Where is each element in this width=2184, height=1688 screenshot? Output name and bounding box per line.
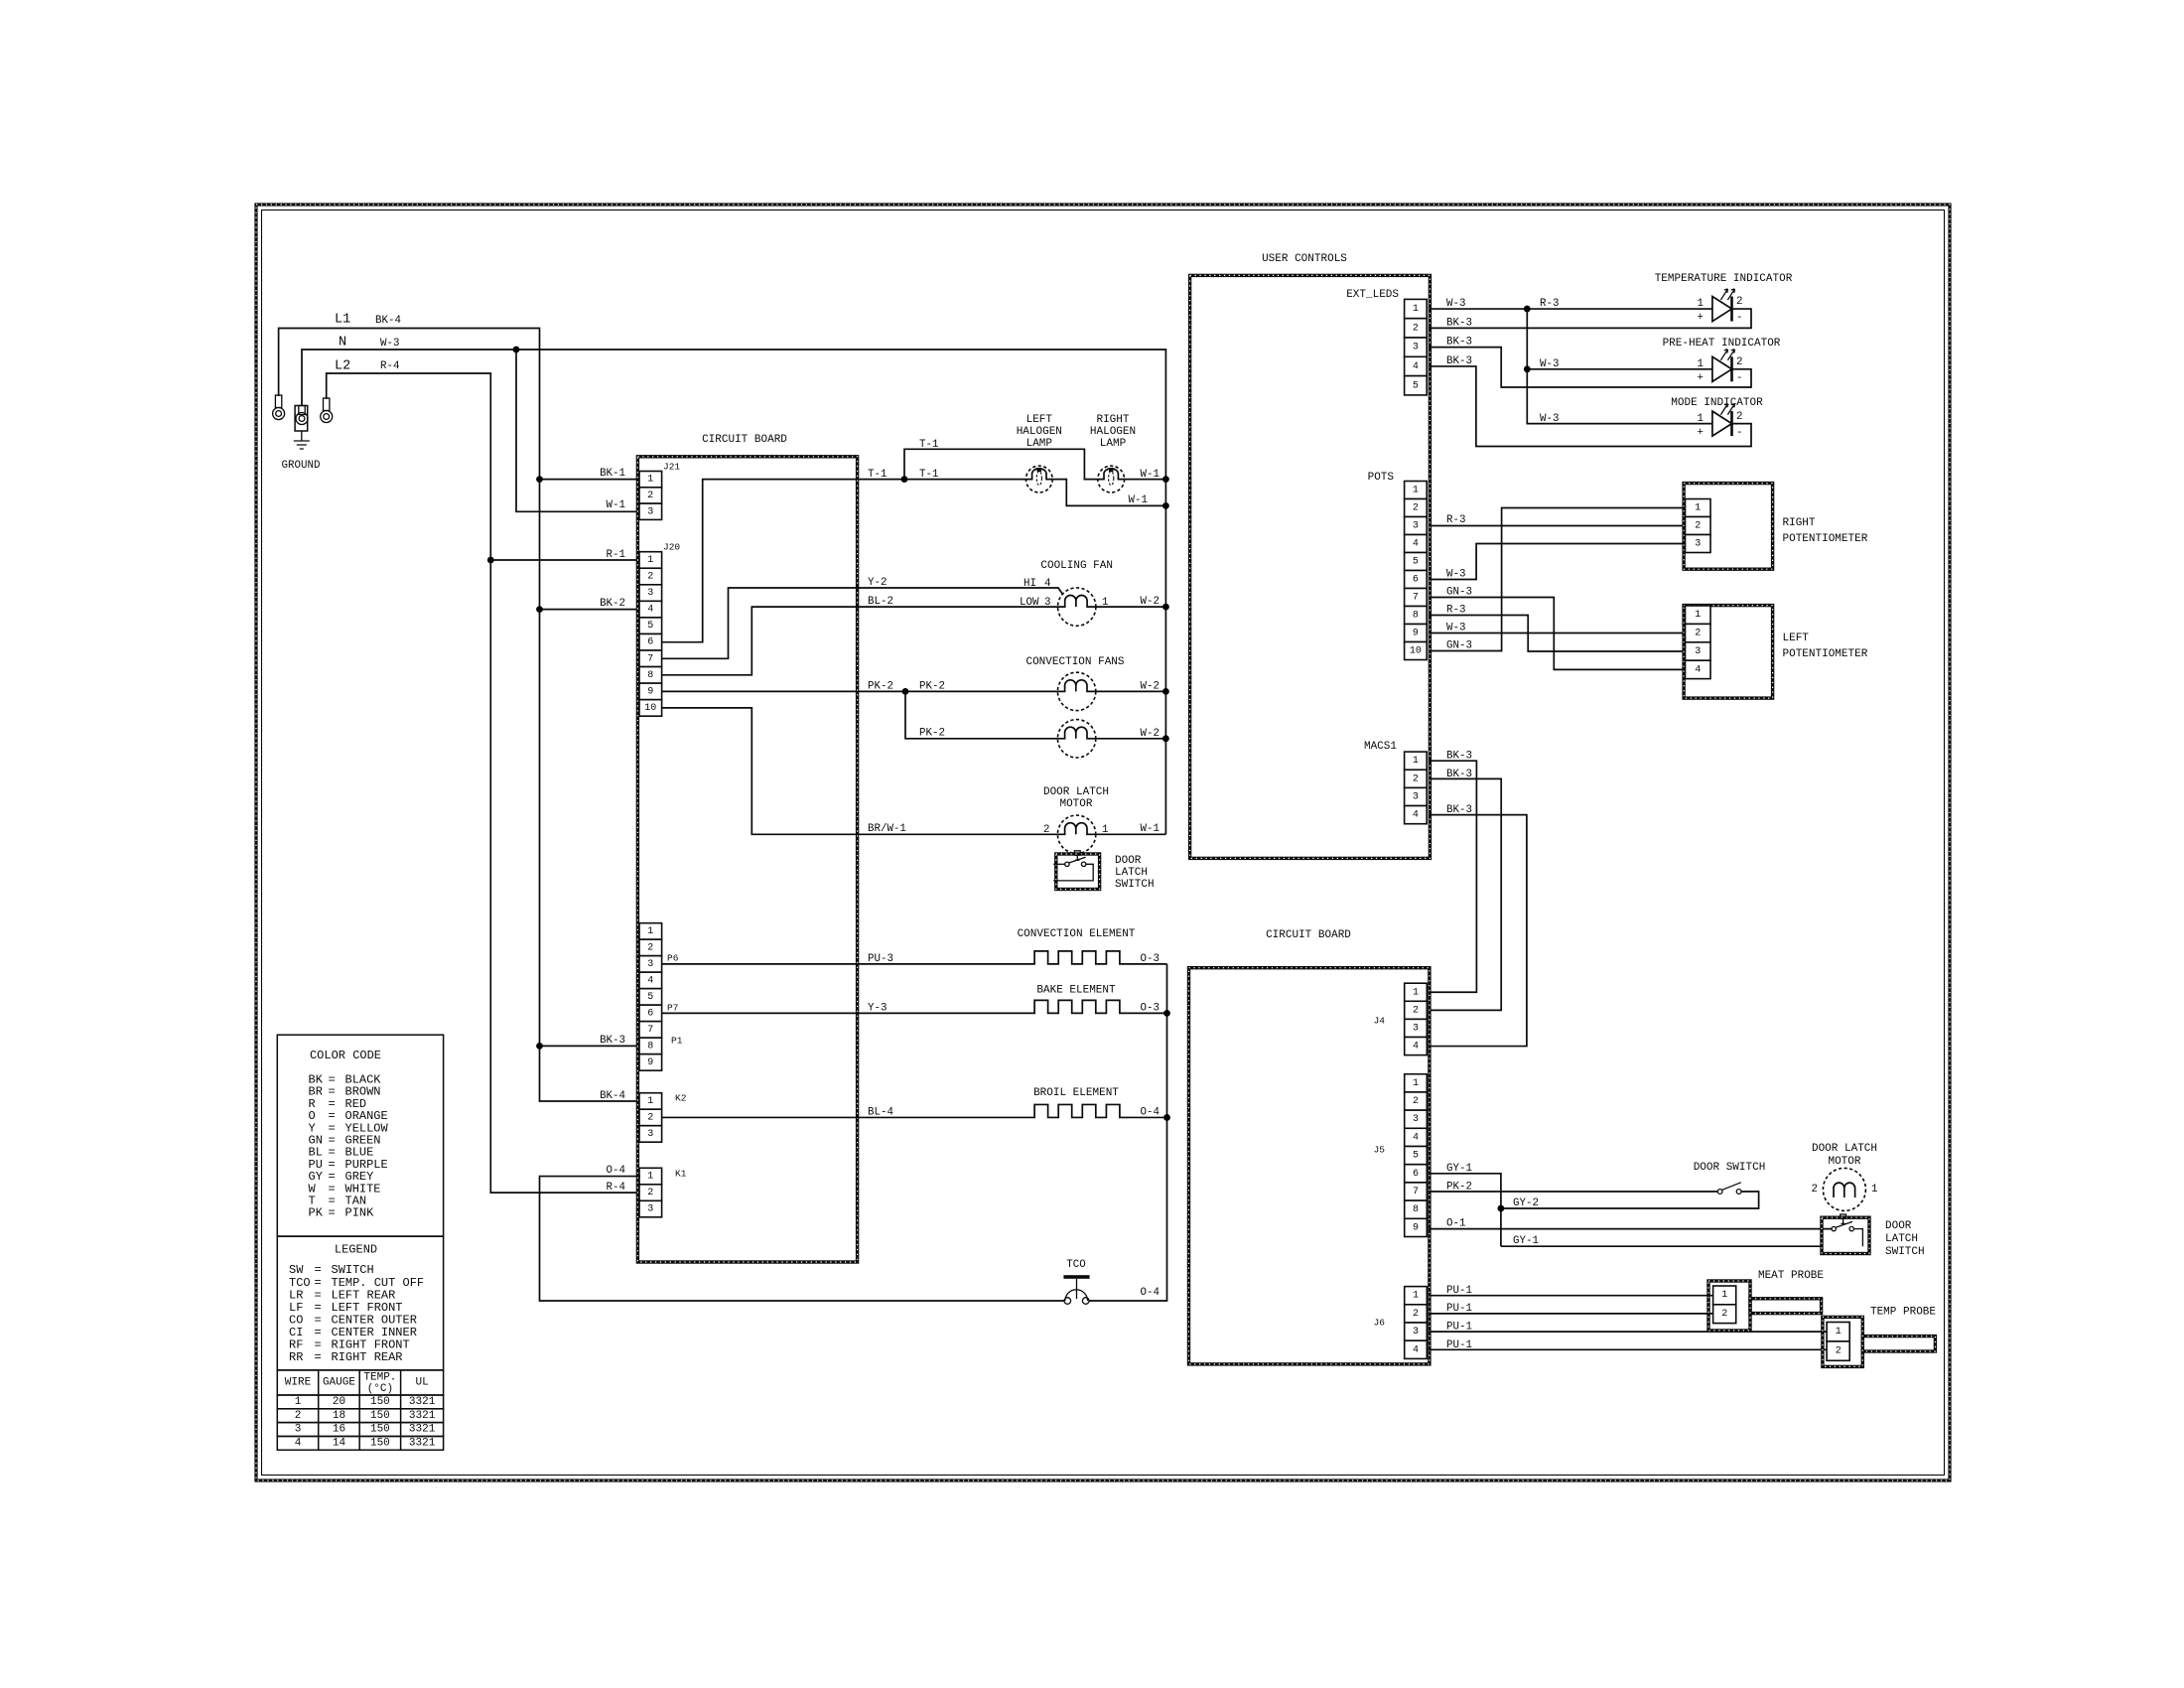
svg-text:3: 3 — [295, 1424, 302, 1436]
svg-text:PK-2: PK-2 — [868, 681, 893, 693]
svg-text:K2: K2 — [675, 1093, 687, 1104]
svg-text:1: 1 — [1413, 304, 1419, 315]
svg-text:O-4: O-4 — [1141, 1287, 1160, 1299]
svg-text:BROIL ELEMENT: BROIL ELEMENT — [1033, 1087, 1119, 1099]
circuit board 1 — [637, 457, 857, 1262]
svg-text:2: 2 — [647, 1188, 653, 1198]
svg-text:HI: HI — [1024, 578, 1036, 590]
svg-text:P6: P6 — [667, 953, 679, 964]
svg-text:O-1: O-1 — [1446, 1218, 1465, 1230]
svg-text:6: 6 — [1413, 1169, 1419, 1180]
svg-text:2: 2 — [1695, 629, 1701, 639]
svg-text:1: 1 — [1102, 824, 1108, 836]
wire L1 BK-4 from terminal to K2 pin 1 — [279, 329, 640, 1102]
svg-text:3321: 3321 — [409, 1424, 436, 1436]
svg-text:1: 1 — [1836, 1327, 1842, 1337]
svg-text:3: 3 — [1044, 597, 1050, 609]
svg-text:P7: P7 — [667, 1003, 678, 1014]
svg-text:PINK: PINK — [345, 1206, 375, 1220]
svg-text:7: 7 — [1413, 1187, 1419, 1197]
wire BK-3 MACS1 pin 2 to J4 pin 2 — [1429, 778, 1501, 1010]
svg-text:1: 1 — [1721, 1290, 1727, 1301]
svg-text:3: 3 — [1695, 539, 1701, 550]
svg-text:W-3: W-3 — [1540, 413, 1559, 425]
svg-text:TEMP PROBE: TEMP PROBE — [1870, 1307, 1936, 1319]
wire GY-1 J5 pin 6 — [1429, 1174, 1501, 1246]
svg-text:7: 7 — [647, 1025, 653, 1036]
svg-text:1: 1 — [1698, 413, 1704, 425]
svg-text:6: 6 — [1413, 575, 1419, 586]
wire T-1 upper branch to right halogen lamp — [904, 449, 1098, 479]
svg-text:10: 10 — [644, 703, 656, 714]
svg-text:4: 4 — [1695, 664, 1701, 675]
svg-text:PU-1: PU-1 — [1446, 1322, 1472, 1334]
svg-text:4: 4 — [1413, 1042, 1419, 1053]
wire R-1 branch to J20 pin 1 — [490, 559, 640, 561]
wire N W-3 bus to right side — [302, 350, 1165, 834]
svg-text:PRE-HEAT INDICATOR: PRE-HEAT INDICATOR — [1663, 338, 1781, 350]
svg-text:BAKE ELEMENT: BAKE ELEMENT — [1036, 985, 1116, 997]
svg-text:CIRCUIT BOARD: CIRCUIT BOARD — [702, 434, 787, 446]
pre-heat indicator LED — [1712, 356, 1732, 381]
svg-text:2: 2 — [647, 942, 653, 953]
convection fan 2 — [1057, 720, 1095, 758]
svg-text:2: 2 — [1413, 1005, 1419, 1016]
svg-text:9: 9 — [1413, 1222, 1419, 1233]
meat probe — [1750, 1299, 1822, 1314]
svg-text:MOTOR: MOTOR — [1059, 798, 1092, 810]
svg-text:2: 2 — [1721, 1309, 1727, 1320]
svg-text:LAMP: LAMP — [1026, 438, 1053, 450]
svg-text:HALOGEN: HALOGEN — [1017, 426, 1062, 438]
left halogen lamp — [1025, 466, 1052, 492]
svg-text:N: N — [339, 336, 346, 351]
wire BK-3 MACS1 pin 1 to J4 pin 1 — [1429, 761, 1476, 992]
svg-text:1: 1 — [647, 1172, 653, 1183]
svg-text:2: 2 — [1836, 1345, 1842, 1356]
svg-text:R-3: R-3 — [1446, 514, 1465, 526]
svg-text:1: 1 — [1695, 610, 1701, 621]
svg-text:6: 6 — [647, 1008, 653, 1019]
svg-text:R-4: R-4 — [607, 1182, 625, 1194]
svg-text:2: 2 — [1695, 521, 1701, 532]
svg-text:4: 4 — [647, 975, 653, 986]
svg-text:-: - — [1736, 312, 1742, 324]
svg-text:W-2: W-2 — [1141, 681, 1160, 693]
svg-text:RIGHT REAR: RIGHT REAR — [332, 1350, 403, 1364]
svg-text:2: 2 — [1413, 323, 1419, 334]
wire PU-1 J6 pin 1 — [1429, 1295, 1714, 1297]
wire O-4 from K1 pin 1 to TCO — [540, 1177, 1064, 1301]
svg-text:W-2: W-2 — [1141, 596, 1160, 608]
svg-text:LEFT: LEFT — [1026, 414, 1053, 426]
svg-text:GY-2: GY-2 — [1513, 1197, 1539, 1209]
wire BK-3 MACS1 pin 4 to J4 pin 4 — [1429, 815, 1527, 1047]
svg-text:8: 8 — [1413, 611, 1419, 622]
svg-text:COLOR CODE: COLOR CODE — [310, 1049, 381, 1062]
svg-text:Y-3: Y-3 — [868, 1003, 887, 1015]
wire PK-2 from J20 pin 9 — [662, 690, 1058, 692]
svg-text:1: 1 — [295, 1396, 302, 1408]
svg-text:3: 3 — [647, 959, 653, 970]
svg-text:PU-3: PU-3 — [868, 953, 893, 965]
wire BK-3 return pin 4 — [1429, 366, 1751, 447]
svg-text:W-1: W-1 — [607, 499, 625, 511]
wire PU-1 J6 pin 3 — [1429, 1331, 1829, 1333]
svg-text:1: 1 — [1871, 1184, 1877, 1196]
svg-text:2: 2 — [647, 1112, 653, 1123]
svg-text:3: 3 — [1413, 343, 1419, 353]
svg-text:O-3: O-3 — [1141, 953, 1160, 965]
terminal L2 — [324, 398, 330, 411]
svg-text:R-3: R-3 — [1540, 298, 1559, 310]
svg-text:TEMPERATURE INDICATOR: TEMPERATURE INDICATOR — [1655, 273, 1793, 285]
svg-text:BK-1: BK-1 — [600, 468, 625, 480]
svg-text:POTENTIOMETER: POTENTIOMETER — [1783, 648, 1868, 660]
svg-text:2: 2 — [1413, 1309, 1419, 1320]
svg-text:J4: J4 — [1374, 1016, 1386, 1027]
svg-text:3321: 3321 — [409, 1437, 436, 1449]
mode indicator LED — [1712, 411, 1732, 436]
svg-text:DOOR: DOOR — [1885, 1220, 1912, 1232]
svg-text:4: 4 — [1413, 810, 1419, 821]
svg-text:BK-3: BK-3 — [600, 1035, 625, 1047]
svg-text:PU-1: PU-1 — [1446, 1339, 1472, 1351]
wire W-3 POTS pin 6 to right potentiometer pin 3 — [1429, 544, 1687, 580]
wire W-1 motor to bus end — [1096, 833, 1166, 835]
door latch motor (right) — [1823, 1168, 1865, 1210]
wire PU-1 J6 pin 2 — [1429, 1313, 1714, 1315]
svg-text:1: 1 — [1413, 486, 1419, 496]
svg-text:GY-1: GY-1 — [1513, 1235, 1539, 1247]
svg-text:2: 2 — [1413, 503, 1419, 514]
svg-text:PU-1: PU-1 — [1446, 1285, 1472, 1297]
svg-text:PK-2: PK-2 — [919, 728, 945, 740]
svg-text:CIRCUIT BOARD: CIRCUIT BOARD — [1266, 929, 1351, 941]
svg-text:CONVECTION ELEMENT: CONVECTION ELEMENT — [1018, 928, 1136, 940]
svg-text:7: 7 — [1413, 593, 1419, 604]
svg-text:=: = — [315, 1350, 322, 1364]
svg-text:O-4: O-4 — [607, 1165, 625, 1177]
svg-text:LOW: LOW — [1020, 597, 1039, 609]
svg-text:9: 9 — [647, 686, 653, 697]
svg-text:BK-3: BK-3 — [1446, 355, 1472, 367]
svg-text:BK-3: BK-3 — [1446, 804, 1472, 816]
svg-text:GY-1: GY-1 — [1446, 1163, 1472, 1175]
svg-text:PU-1: PU-1 — [1446, 1303, 1472, 1315]
wire W-3 POTS pin 9 to left potentiometer pin 2 — [1429, 633, 1687, 634]
svg-text:DOOR LATCH: DOOR LATCH — [1043, 786, 1109, 798]
svg-text:O-4: O-4 — [1141, 1107, 1160, 1119]
wire BL-2 LOW lead — [662, 607, 1058, 675]
svg-text:3: 3 — [1413, 1327, 1419, 1337]
wire L2 R-4 from terminal to K1 pin 2 — [327, 373, 640, 1193]
svg-text:5: 5 — [1413, 557, 1419, 568]
svg-text:T-1: T-1 — [868, 469, 887, 481]
svg-text:1: 1 — [647, 926, 653, 937]
svg-text:2: 2 — [1043, 824, 1049, 836]
svg-text:5: 5 — [1413, 380, 1419, 391]
legend box — [277, 1236, 443, 1370]
svg-text:-: - — [1736, 372, 1742, 384]
left potentiometer — [1684, 606, 1773, 699]
svg-text:W-1: W-1 — [1129, 494, 1148, 506]
svg-text:5: 5 — [647, 621, 653, 632]
svg-text:2: 2 — [1736, 356, 1742, 368]
svg-text:2: 2 — [1812, 1184, 1818, 1196]
svg-text:-: - — [1736, 427, 1742, 439]
svg-text:2: 2 — [1413, 1096, 1419, 1107]
svg-text:DOOR: DOOR — [1115, 855, 1142, 867]
svg-text:+: + — [1698, 427, 1704, 439]
svg-text:3: 3 — [1413, 1114, 1419, 1125]
svg-text:P1: P1 — [671, 1036, 683, 1047]
wire W-2 conv fan 1 to bus — [1096, 690, 1166, 692]
svg-text:3: 3 — [1413, 1023, 1419, 1034]
svg-text:10: 10 — [1410, 646, 1422, 657]
svg-text:7: 7 — [647, 653, 653, 664]
svg-text:K1: K1 — [675, 1169, 687, 1180]
svg-text:150: 150 — [370, 1424, 390, 1436]
svg-text:W-3: W-3 — [1446, 298, 1465, 310]
svg-text:DOOR LATCH: DOOR LATCH — [1812, 1143, 1877, 1155]
svg-text:W-3: W-3 — [1446, 569, 1465, 581]
svg-text:W-3: W-3 — [380, 338, 399, 350]
svg-text:1: 1 — [1695, 503, 1701, 514]
svg-text:HALOGEN: HALOGEN — [1090, 426, 1136, 438]
right potentiometer — [1684, 484, 1773, 570]
color code box — [277, 1035, 443, 1236]
convection element — [662, 951, 1167, 964]
circuit board 2 — [1189, 968, 1430, 1364]
wire W-1 branch to J21 pin 3 — [516, 350, 640, 511]
svg-text:LAMP: LAMP — [1100, 438, 1127, 450]
right halogen lamp — [1098, 466, 1125, 492]
svg-text:4: 4 — [295, 1437, 302, 1449]
svg-text:W-2: W-2 — [1141, 728, 1160, 740]
svg-text:BR/W-1: BR/W-1 — [868, 823, 906, 835]
svg-text:1: 1 — [1413, 987, 1419, 998]
svg-text:T-1: T-1 — [919, 469, 938, 481]
wire W-2 conv fan 2 to bus — [1096, 738, 1166, 740]
svg-text:BL-2: BL-2 — [868, 596, 893, 608]
svg-text:W-3: W-3 — [1446, 623, 1465, 634]
svg-text:MACS1: MACS1 — [1364, 741, 1397, 753]
svg-text:6: 6 — [647, 637, 653, 648]
svg-text:4: 4 — [1413, 539, 1419, 550]
svg-text:3: 3 — [647, 588, 653, 599]
svg-text:T-1: T-1 — [919, 439, 938, 451]
svg-text:LEFT: LEFT — [1783, 633, 1810, 644]
svg-text:POTS: POTS — [1368, 472, 1395, 484]
svg-text:8: 8 — [647, 1041, 653, 1052]
wire PU-1 J6 pin 4 — [1429, 1348, 1829, 1350]
wire O-1 J5 pin 9 to door latch switch — [1429, 1228, 1832, 1230]
svg-text:1: 1 — [1413, 756, 1419, 767]
svg-text:9: 9 — [1413, 629, 1419, 639]
terminal L1 — [275, 395, 281, 408]
svg-text:J21: J21 — [663, 462, 680, 473]
svg-text:BK-3: BK-3 — [1446, 337, 1472, 349]
svg-text:LATCH: LATCH — [1115, 867, 1148, 879]
TCO thermostat — [1063, 1275, 1089, 1279]
svg-text:BK-4: BK-4 — [600, 1090, 625, 1102]
svg-text:2: 2 — [647, 491, 653, 501]
svg-text:2: 2 — [647, 572, 653, 583]
svg-text:SWITCH: SWITCH — [1885, 1246, 1925, 1258]
wire PK-2 J5 pin 7 to door switch — [1429, 1191, 1717, 1193]
svg-text:COOLING FAN: COOLING FAN — [1040, 560, 1113, 572]
svg-text:PK: PK — [309, 1206, 324, 1220]
wire BK-3 return pin 3 — [1429, 348, 1751, 387]
svg-text:BK-3: BK-3 — [1446, 751, 1472, 763]
svg-text:RIGHT: RIGHT — [1096, 414, 1129, 426]
wire W-3 to pre-heat anode — [1527, 368, 1712, 370]
user controls board — [1190, 275, 1431, 858]
svg-text:R-1: R-1 — [607, 549, 625, 561]
wire W-1 from left lamp to bus — [1052, 480, 1165, 506]
wire Y-2 HI lead — [662, 588, 1063, 658]
svg-text:14: 14 — [333, 1437, 346, 1449]
svg-text:=: = — [329, 1206, 336, 1220]
svg-text:GROUND: GROUND — [282, 460, 321, 472]
door switch — [1717, 1190, 1722, 1195]
svg-text:PK-2: PK-2 — [919, 681, 945, 693]
svg-text:3321: 3321 — [409, 1396, 436, 1408]
svg-text:BK-3: BK-3 — [1446, 318, 1472, 330]
svg-text:WIRE: WIRE — [285, 1377, 312, 1389]
svg-text:+: + — [1698, 312, 1704, 324]
svg-text:3: 3 — [1413, 521, 1419, 532]
temperature indicator LED — [1712, 297, 1732, 322]
svg-text:BK-3: BK-3 — [1446, 769, 1472, 780]
svg-text:3321: 3321 — [409, 1410, 436, 1422]
svg-text:RR: RR — [289, 1350, 303, 1364]
svg-text:1: 1 — [1413, 1078, 1419, 1089]
svg-text:J6: J6 — [1374, 1318, 1386, 1329]
svg-text:J20: J20 — [663, 542, 680, 553]
svg-text:2: 2 — [1736, 411, 1742, 423]
bake element — [662, 1000, 1167, 1013]
svg-text:5: 5 — [647, 992, 653, 1003]
svg-text:PK-2: PK-2 — [1446, 1182, 1472, 1194]
svg-text:R-3: R-3 — [1446, 605, 1465, 617]
svg-text:3: 3 — [647, 1129, 653, 1140]
wire BK-1 branch to J21 pin 1 — [540, 479, 641, 481]
svg-text:GN-3: GN-3 — [1446, 640, 1472, 652]
svg-text:EXT_LEDS: EXT_LEDS — [1346, 289, 1399, 301]
svg-text:1: 1 — [1698, 298, 1704, 310]
svg-text:RIGHT: RIGHT — [1783, 517, 1816, 529]
svg-text:8: 8 — [647, 670, 653, 681]
wire R-3 POTS pin 8 to left potentiometer pin 3 — [1429, 616, 1687, 652]
wire GN-3 POTS pin 7 to left potentiometer pin 4 — [1429, 598, 1687, 670]
svg-text:4: 4 — [1044, 578, 1050, 590]
svg-text:150: 150 — [370, 1396, 390, 1408]
svg-text:2: 2 — [1736, 296, 1742, 308]
svg-text:TCO: TCO — [1066, 1259, 1085, 1271]
svg-text:3: 3 — [647, 506, 653, 517]
svg-text:4: 4 — [1413, 1344, 1419, 1355]
wire gauge table — [277, 1370, 443, 1395]
svg-text:MEAT PROBE: MEAT PROBE — [1758, 1270, 1824, 1282]
svg-text:J5: J5 — [1374, 1145, 1386, 1156]
svg-text:2: 2 — [295, 1410, 302, 1422]
svg-text:8: 8 — [1413, 1204, 1419, 1215]
svg-text:BL-4: BL-4 — [868, 1107, 893, 1119]
svg-text:1: 1 — [1102, 597, 1108, 609]
wire PK-2 branch to conv fan 2 — [905, 691, 1057, 738]
svg-text:3: 3 — [647, 1204, 653, 1215]
wire BK-3 return pin 2 — [1429, 309, 1751, 328]
cooling fan — [1058, 588, 1096, 626]
wire W-3 vertical feed — [1527, 309, 1712, 424]
wire W-1 from right lamp to bus — [1125, 479, 1166, 481]
svg-text:4: 4 — [1413, 1132, 1419, 1143]
svg-text:R-4: R-4 — [380, 360, 399, 372]
svg-text:1: 1 — [647, 475, 653, 486]
wire BK-2 branch to J20 pin 4 — [540, 609, 641, 611]
svg-text:CONVECTION FANS: CONVECTION FANS — [1025, 656, 1124, 668]
svg-text:W-1: W-1 — [1141, 823, 1160, 835]
svg-text:3: 3 — [1695, 646, 1701, 657]
wire BR/W-1 from J20 pin 10 — [662, 708, 1058, 834]
svg-text:TEMP.: TEMP. — [363, 1372, 396, 1384]
wire GN-3 POTS pin 10 to right potentiometer pin 1 — [1429, 508, 1687, 651]
svg-text:GN-3: GN-3 — [1446, 587, 1472, 599]
svg-text:4: 4 — [1413, 361, 1419, 372]
wire GY-2 door switch return — [1501, 1192, 1759, 1208]
svg-text:BK-4: BK-4 — [375, 315, 401, 327]
svg-text:1: 1 — [647, 555, 653, 566]
svg-text:5: 5 — [1413, 1151, 1419, 1162]
svg-text:DOOR SWITCH: DOOR SWITCH — [1694, 1162, 1766, 1174]
svg-text:W-1: W-1 — [1141, 469, 1160, 481]
wire BK-3 branch to P1 pin 8 — [540, 1045, 641, 1047]
svg-text:16: 16 — [333, 1424, 345, 1436]
svg-text:L2: L2 — [335, 359, 350, 374]
svg-text:(°C): (°C) — [367, 1383, 393, 1395]
svg-text:+: + — [1698, 372, 1704, 384]
temp probe — [1862, 1336, 1935, 1351]
svg-text:BK-2: BK-2 — [600, 598, 625, 610]
door latch motor — [1057, 815, 1095, 853]
terminal N with box — [299, 406, 305, 415]
svg-text:18: 18 — [333, 1410, 345, 1422]
svg-text:1: 1 — [647, 1096, 653, 1107]
svg-text:4: 4 — [647, 605, 653, 616]
svg-text:9: 9 — [647, 1057, 653, 1068]
svg-text:3: 3 — [1413, 791, 1419, 802]
wire W-2 cooling fan to bus — [1096, 606, 1166, 608]
ground — [294, 431, 310, 449]
wire GY-1 door latch switch return — [1501, 1245, 1822, 1247]
svg-text:2: 2 — [1413, 774, 1419, 784]
svg-text:MODE INDICATOR: MODE INDICATOR — [1671, 397, 1763, 409]
svg-text:150: 150 — [370, 1437, 390, 1449]
wire R-3 POTS pin 3 to right potentiometer pin 2 — [1429, 525, 1687, 527]
svg-text:20: 20 — [333, 1396, 345, 1408]
svg-text:UL: UL — [415, 1377, 428, 1389]
door latch switch (left) — [1056, 854, 1100, 890]
svg-text:LEGEND: LEGEND — [335, 1243, 377, 1257]
svg-text:LATCH: LATCH — [1885, 1233, 1918, 1245]
svg-text:GAUGE: GAUGE — [323, 1377, 355, 1389]
svg-text:POTENTIOMETER: POTENTIOMETER — [1783, 533, 1868, 545]
svg-text:O-3: O-3 — [1141, 1003, 1160, 1015]
broil element — [662, 1104, 1167, 1117]
svg-text:150: 150 — [370, 1410, 390, 1422]
